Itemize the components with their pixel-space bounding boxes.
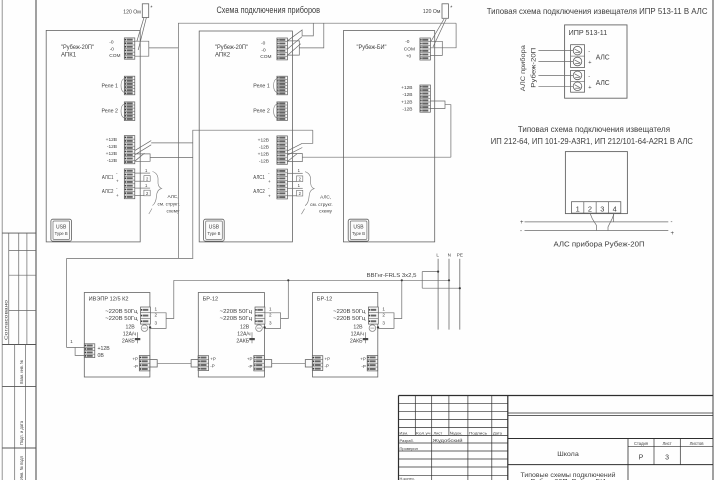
svg-text:4: 4 — [613, 204, 617, 213]
power supply ИВЭПР outline — [84, 293, 150, 378]
svg-text:-12В: -12В — [107, 158, 117, 164]
svg-text:+12В: +12В — [401, 85, 412, 91]
left stamp: approval table verticals — [8, 233, 10, 344]
junction dot on PE line — [459, 287, 461, 289]
svg-text:Подп. и дата: Подп. и дата — [19, 420, 24, 445]
title block thick divider — [507, 396, 509, 480]
terminal strip device 1 Реле 2 — [124, 102, 135, 121]
title block стадия columns — [627, 439, 629, 480]
svg-text:12В: 12В — [125, 325, 135, 331]
wires АЛС to ИПР terminals — [538, 50, 573, 52]
svg-text:COM: COM — [260, 54, 271, 60]
wires resistor R2 to device 3 terminals — [431, 19, 444, 41]
wire feed into ИВЭПР +12В — [67, 347, 85, 349]
drawing frame left border — [35, 0, 37, 480]
wire link +Р-Р ИВЭПР to БР-12 №1 — [158, 362, 191, 364]
wire N distribution horizontal — [174, 279, 449, 281]
terminal strip БР-12 №2 +Р-Р right — [367, 356, 378, 371]
wire L stub and bracket — [422, 271, 438, 273]
svg-text:12А/ч: 12А/ч — [237, 332, 251, 338]
terminal strip БР-12 №1 +Р-Р right — [254, 356, 264, 371]
svg-text:Реле 2: Реле 2 — [102, 109, 119, 115]
svg-text:+12В: +12В — [106, 151, 117, 157]
wire feed into ИВЭПР 0В branch — [75, 348, 84, 356]
cable number 2 box device 2 (АЛС1) — [297, 176, 303, 182]
mains line L — [437, 259, 439, 330]
left stamp: lower section divider — [2, 344, 36, 346]
svg-text:ИП 212-64, ИП 101-29-А3R1, ИП: ИП 212-64, ИП 101-29-А3R1, ИП 212/101-64… — [491, 136, 693, 146]
wire loop ИВЭПР mains jumper — [150, 313, 166, 329]
wire bottom feed drop to ИВЭПР — [66, 258, 68, 347]
mains line PE — [459, 259, 461, 330]
svg-text:Типовая схема подключения изве: Типовая схема подключения извещателя ИПР… — [487, 6, 708, 16]
terminal group 2 ИПР — [571, 70, 585, 92]
svg-text:АЛС,: АЛС, — [320, 194, 331, 199]
wire stubs АЛС device 1 — [135, 172, 150, 174]
svg-text:1: 1 — [155, 307, 158, 312]
svg-text:Взам. инв. №: Взам. инв. № — [19, 360, 24, 384]
svg-text:Согласовано: Согласовано — [4, 300, 10, 340]
svg-text:Рубеж-20П: Рубеж-20П — [532, 48, 538, 88]
junction dot on N line — [448, 279, 450, 281]
svg-text:+12В: +12В — [106, 137, 117, 143]
svg-text:3: 3 — [665, 455, 669, 462]
relay curly brace device 1 Реле 2 — [121, 104, 125, 118]
svg-text:2АКБ: 2АКБ — [236, 339, 249, 345]
resistor R1 120 Ом — [142, 4, 148, 18]
svg-text:+Р: +Р — [132, 357, 138, 362]
brace АЛС device 1 — [153, 172, 162, 206]
svg-text:БР-12: БР-12 — [203, 296, 219, 302]
wire loop БР-12 №2 mains jumper — [378, 313, 394, 329]
wire device 3 COM from bus — [430, 23, 456, 48]
svg-text:1: 1 — [576, 204, 580, 213]
svg-text:+Р: +Р — [247, 357, 253, 362]
cable number 2 box (АЛС2) — [144, 190, 150, 196]
svg-text:-Р: -Р — [248, 364, 252, 369]
terminal strip device 3 power 12V — [420, 85, 431, 112]
terminal strip device 2 Реле 2 — [277, 102, 288, 121]
svg-text:12А/ч: 12А/ч — [351, 332, 365, 338]
svg-text:L: L — [436, 253, 439, 258]
svg-text:Type B: Type B — [55, 231, 68, 236]
svg-text:-: - — [520, 228, 522, 234]
svg-text:12В: 12В — [240, 325, 250, 331]
drawing frame right border — [712, 0, 714, 480]
svg-text:АПК1: АПК1 — [61, 53, 77, 59]
svg-text:-12В: -12В — [402, 106, 412, 112]
wire device 1 12V to power supply feed — [150, 157, 193, 159]
title block column lines left part — [414, 396, 416, 436]
wire bottom feed horizontal — [67, 257, 194, 259]
left stamp: approval table top line — [2, 232, 36, 234]
plug connector ИВЭПР right — [150, 360, 157, 367]
screw terminal circle ИПР — [573, 46, 582, 55]
svg-text:~220В 50Гц: ~220В 50Гц — [333, 309, 366, 315]
svg-text:схему: схему — [319, 209, 333, 214]
terminal strip ИВЭПР +12В 0В — [84, 344, 95, 358]
svg-text:+12В: +12В — [401, 99, 412, 105]
wire loop device 3 12V jumper — [430, 101, 445, 109]
svg-text:-0: -0 — [405, 39, 410, 45]
wire loop БР-12 №1 mains jumper — [265, 313, 281, 329]
junction dot N at БР-12 №2 tap — [401, 279, 403, 281]
screw terminal circle ИПР — [573, 82, 582, 91]
svg-text:-0: -0 — [261, 48, 266, 54]
relay curly brace device 1 Реле 1 — [121, 79, 125, 93]
wire diagonal device 2 row1 — [287, 30, 302, 41]
terminal strip device 2 top (-0,-0,COM) — [277, 38, 288, 60]
terminal strip device 1 Реле 1 — [124, 76, 135, 95]
svg-text:+12В: +12В — [98, 346, 111, 352]
svg-text:-Р: -Р — [325, 364, 329, 369]
svg-text:Стадия: Стадия — [634, 441, 648, 446]
left stamp: approval table row lines — [9, 250, 36, 252]
wire loop device 3 jumper — [430, 41, 442, 55]
terminal strip ИВЭПР mains 1-2-3 — [141, 307, 151, 324]
svg-text:"Рубеж-20П": "Рубеж-20П" — [61, 43, 94, 51]
svg-text:Подпись: Подпись — [469, 431, 487, 436]
svg-text:~220В 50Гц: ~220В 50Гц — [220, 309, 253, 315]
wire АЛС plus line — [525, 221, 669, 223]
svg-text:COM: COM — [109, 53, 120, 59]
svg-text:-12В: -12В — [259, 158, 269, 164]
brace АЛС device 2 — [305, 172, 314, 206]
terminal strip device 2 Реле 1 — [277, 76, 288, 95]
device 3 USB socket — [348, 219, 369, 241]
svg-text:-12В: -12В — [107, 144, 117, 150]
wire loop device 1 -0/COM jumper — [135, 41, 149, 56]
terminal strip device 1 power 12V — [124, 136, 135, 164]
svg-text:АЛС1: АЛС1 — [253, 175, 265, 181]
svg-text:12В: 12В — [353, 325, 363, 331]
svg-text:Дата: Дата — [493, 431, 503, 436]
svg-text:Типовая схема подключения изве: Типовая схема подключения извещателя — [518, 124, 670, 134]
svg-text:12А/ч: 12А/ч — [123, 332, 137, 338]
wires resistor R1 to device 1 terminals — [137, 18, 144, 42]
svg-text:1: 1 — [269, 307, 272, 312]
svg-text:АПК2: АПК2 — [215, 53, 231, 59]
svg-text:"Рубеж-БИ": "Рубеж-БИ" — [357, 43, 387, 51]
svg-text:Разраб.: Разраб. — [400, 438, 414, 443]
svg-text:+Р: +Р — [210, 357, 216, 362]
terminal strip 1-4 ИП — [572, 202, 621, 213]
wire device 1 12V to inter-block bus upper — [151, 142, 193, 144]
svg-text:+: + — [268, 193, 271, 198]
wire device 2 12V to device 3 feed — [302, 156, 451, 158]
svg-text:-Р: -Р — [210, 364, 214, 369]
terminal strip БР-12 №1 mains 1-2-3 — [255, 307, 265, 324]
svg-text:АЛС2: АЛС2 — [253, 189, 265, 195]
terminal strip device 1 АЛС — [124, 169, 135, 199]
wire АЛС minus line — [525, 230, 669, 232]
title block right section row lines — [508, 412, 713, 414]
battery symbol ИВЭПР — [137, 332, 139, 343]
wire device 2 -0 drop from bus — [302, 23, 313, 36]
svg-text:3: 3 — [600, 204, 604, 213]
svg-text:АЛС: АЛС — [596, 78, 611, 87]
left stamp row line 2 — [2, 447, 36, 449]
wire stubs АЛС device 2 — [287, 172, 302, 174]
PE terminal circle БР-12 №2 — [369, 325, 376, 332]
svg-text:~220В 50Гц: ~220В 50Гц — [105, 316, 138, 322]
screw terminal circle ИПР — [573, 71, 582, 80]
wire device 2 12V feed from bus — [302, 130, 313, 143]
svg-text:АЛС прибора: АЛС прибора — [521, 44, 527, 91]
terminal strip device 2 АЛС — [277, 169, 288, 199]
svg-text:ИПР 513-11: ИПР 513-11 — [569, 28, 608, 37]
title block outer top border — [399, 395, 714, 397]
device Рубеж-20П АПК1 outline — [46, 30, 140, 242]
relay curly brace device 2 Реле 2 — [274, 104, 278, 118]
svg-text:+: + — [671, 231, 675, 237]
svg-text:+: + — [116, 179, 119, 184]
svg-text:+: + — [520, 220, 524, 226]
svg-text:-Р: -Р — [134, 364, 138, 369]
svg-text:USB: USB — [209, 225, 220, 231]
svg-text:USB: USB — [353, 225, 364, 231]
svg-text:120 Ом: 120 Ом — [423, 9, 441, 15]
sheet outer left edge line — [1, 0, 3, 480]
wire link +Р-Р БР-12 №1 to БР-12 №2 — [272, 362, 306, 364]
svg-text:АЛС,: АЛС, — [168, 194, 179, 199]
wire diagonal device 2 row3 — [287, 37, 302, 50]
svg-text:2АКБ: 2АКБ — [350, 339, 363, 345]
junction dot N at БР-12 №1 tap — [287, 279, 289, 281]
svg-text:Инв. № подл: Инв. № подл — [19, 456, 24, 480]
svg-text:-Р: -Р — [361, 364, 365, 369]
svg-text:2АКБ: 2АКБ — [122, 339, 135, 345]
terminal strip ИВЭПР +Р-Р right — [139, 356, 150, 371]
mains line N — [448, 259, 450, 330]
PE terminal circle БР-12 №1 — [256, 325, 263, 332]
wire N drop to БР-12 №1 — [281, 280, 289, 318]
svg-text:см. структ.: см. структ. — [158, 202, 181, 207]
wire device 3 12V feed riser — [445, 105, 451, 158]
svg-text:120 Ом: 120 Ом — [123, 9, 141, 15]
svg-text:Лист: Лист — [663, 441, 672, 446]
svg-text:+12В: +12В — [258, 137, 269, 143]
svg-text:Лист: Лист — [434, 431, 443, 436]
detector ИПР 513-11 box — [565, 25, 627, 98]
terminal strip БР-12 №2 mains 1-2-3 — [368, 307, 378, 324]
junction dot on L line — [437, 271, 439, 273]
cable number 2 box device 2 (АЛС2) — [297, 190, 303, 196]
svg-text:-0: -0 — [110, 47, 115, 53]
relay curly brace device 2 Реле 1 — [274, 79, 278, 93]
wire terminal 4 to plus line — [608, 213, 614, 230]
svg-text:-0: -0 — [109, 39, 114, 45]
svg-text:-12В: -12В — [402, 92, 412, 98]
svg-text:2: 2 — [588, 204, 592, 213]
svg-text:ИВЭПР 12/5 К2: ИВЭПР 12/5 К2 — [89, 296, 129, 302]
svg-text:-: - — [588, 74, 590, 80]
svg-text:+12В: +12В — [258, 151, 269, 157]
svg-text:Изм.: Изм. — [400, 431, 409, 436]
wire riser inter-block V1 — [177, 48, 179, 258]
PE terminal circle ИВЭПР — [141, 325, 148, 332]
svg-text:~220В 50Гц: ~220В 50Гц — [105, 309, 138, 315]
svg-text:Type B: Type B — [207, 231, 220, 236]
svg-text:Жудобский: Жудобский — [433, 438, 464, 443]
battery symbol БР-12 №2 — [364, 332, 366, 343]
svg-text:Схема подключения приборов: Схема подключения приборов — [217, 5, 321, 15]
terminal strip БР-12 №2 +Р-Р left — [312, 356, 323, 371]
svg-text:Реле 1: Реле 1 — [253, 84, 269, 90]
svg-text:Реле 1: Реле 1 — [102, 84, 119, 90]
title block left border — [398, 396, 400, 480]
terminal strip БР-12 №1 +Р-Р left — [198, 356, 209, 371]
power supply БР-12 №2 outline — [313, 293, 378, 378]
battery symbol БР-12 №1 — [251, 332, 253, 343]
wire pair diagonal device 2 12V feed — [287, 143, 302, 151]
svg-text:+: + — [588, 60, 591, 66]
svg-text:АЛС2: АЛС2 — [102, 189, 114, 195]
svg-text:Школа: Школа — [557, 451, 579, 458]
svg-text:+Р: +Р — [360, 357, 366, 362]
left stamp: lower verticals — [14, 345, 16, 480]
wire loop device 2 -0/COM jumper — [288, 41, 300, 55]
title block row lines left part — [399, 402, 508, 404]
wire bus top COM net — [178, 23, 456, 48]
svg-text:АЛС прибора Рубеж-20П: АЛС прибора Рубеж-20П — [554, 239, 645, 248]
plug connector БР-12 №1 right — [265, 360, 272, 367]
wire pair diagonal device 1 12V feed — [135, 141, 151, 151]
device Рубеж-20П АПК2 outline — [199, 31, 292, 242]
wire diagonal device 2 row5 — [287, 44, 301, 56]
svg-text:~220В 50Гц: ~220В 50Гц — [220, 316, 253, 322]
wire terminal 2 to minus line — [590, 213, 597, 230]
svg-text:Н.контр.: Н.контр. — [400, 476, 415, 480]
svg-text:3: 3 — [382, 320, 385, 325]
svg-text:+0: +0 — [406, 54, 412, 60]
svg-text:Проверил: Проверил — [400, 446, 419, 451]
svg-text:0В: 0В — [98, 353, 105, 359]
wire PE stub — [422, 287, 460, 289]
left stamp row line 1 — [2, 386, 36, 388]
device 1 USB socket — [51, 219, 72, 241]
svg-text:см. структ.: см. структ. — [310, 202, 333, 207]
svg-text:+: + — [268, 179, 271, 184]
wire device 2 COM riser to bus — [299, 23, 324, 48]
svg-text:БР-12: БР-12 — [317, 296, 333, 302]
svg-text:PE: PE — [457, 253, 463, 258]
power supply БР-12 №1 outline — [198, 293, 264, 378]
svg-text:+: + — [588, 85, 591, 91]
wire N drop to БР-12 №2 — [394, 280, 402, 318]
svg-text:-: - — [671, 220, 673, 226]
svg-text:USB: USB — [56, 225, 67, 231]
svg-text:+: + — [116, 193, 119, 198]
screw terminal circle ИПР — [573, 57, 582, 66]
device Рубеж-БИ outline — [343, 31, 434, 242]
svg-text:Р: Р — [639, 455, 644, 462]
wire N drop to ИВЭПР — [166, 280, 174, 318]
svg-text:схему: схему — [167, 208, 181, 213]
wire loop device 1 12V jumper — [135, 154, 150, 161]
terminal strip device 1 top (-0,-0,COM) — [124, 38, 135, 59]
svg-text:N: N — [448, 253, 451, 258]
svg-text:Type B: Type B — [352, 231, 365, 236]
cable number 2 box (АЛС1) — [144, 176, 150, 182]
svg-text:Кол.уч: Кол.уч — [416, 431, 431, 436]
svg-text:COM: COM — [404, 46, 415, 52]
wire riser inter-block V2 12V bus — [193, 130, 313, 258]
plug connector БР-12 №1 left — [191, 360, 198, 367]
svg-text:3: 3 — [269, 320, 272, 325]
svg-text:-: - — [588, 49, 590, 55]
terminal strip device 3 top (-0,COM,+0) — [420, 38, 431, 60]
svg-text:~220В 50Гц: ~220В 50Гц — [333, 316, 366, 322]
wire bracket vertical L-PE — [421, 272, 423, 289]
wire terminal 4 to top line — [613, 213, 615, 222]
resistor R2 120 Ом — [442, 4, 448, 18]
svg-text:3: 3 — [155, 320, 158, 325]
terminal group 1 ИПР — [571, 45, 585, 68]
svg-text:+Р: +Р — [325, 357, 331, 362]
svg-text:№док.: №док. — [450, 431, 463, 436]
terminal strip device 2 power 12V — [277, 136, 288, 164]
device 2 USB socket — [204, 219, 225, 241]
wire loop device 2 12V jumper — [288, 154, 303, 162]
svg-text:-0: -0 — [261, 41, 266, 47]
detector ИП box — [565, 152, 627, 214]
svg-text:АЛС1: АЛС1 — [102, 175, 114, 181]
svg-text:ВВГнг-FRLS 3х2,5: ВВГнг-FRLS 3х2,5 — [367, 273, 417, 279]
svg-text:"Рубеж-20П": "Рубеж-20П" — [215, 43, 248, 51]
wire device 1 COM to bus — [149, 47, 179, 49]
svg-text:Реле 2: Реле 2 — [253, 109, 269, 115]
svg-text:1: 1 — [382, 307, 385, 312]
svg-text:АЛС: АЛС — [596, 53, 611, 62]
svg-text:-12В: -12В — [259, 144, 269, 150]
svg-text:Листов: Листов — [690, 441, 705, 446]
plug connector БР-12 №2 left — [305, 360, 312, 367]
